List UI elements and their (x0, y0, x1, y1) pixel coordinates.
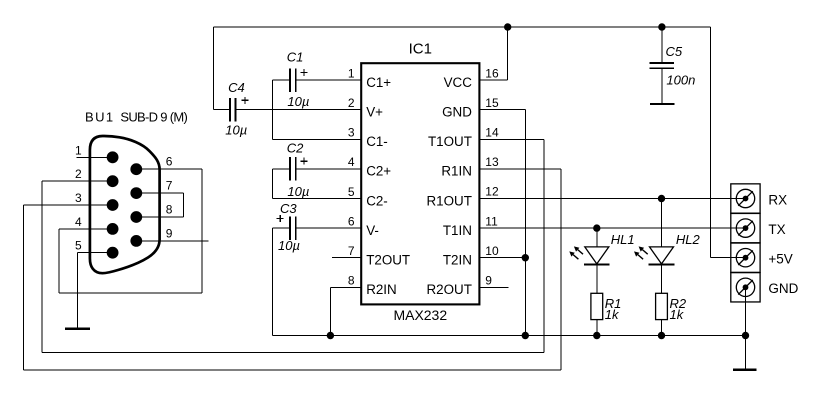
svg-text:MAX232: MAX232 (393, 307, 447, 323)
wire pin11 T1IN to TX (479, 227, 745, 229)
node HL1 junction (593, 224, 600, 231)
svg-text:1k: 1k (670, 307, 685, 322)
svg-text:HL1: HL1 (611, 232, 635, 247)
wire RX bottom run (BU1 pin3 to R1IN) (24, 369, 561, 371)
svg-text:12: 12 (485, 185, 499, 199)
svg-text:TX: TX (768, 222, 785, 237)
node pin10 tie junction (522, 254, 529, 261)
wire C2 to pin4 (297, 168, 362, 170)
svg-text:+5V: +5V (768, 252, 792, 267)
node pin8 ground junction (327, 332, 334, 339)
svg-text:6: 6 (348, 214, 355, 228)
svg-text:14: 14 (485, 126, 499, 140)
wire pin12 R1OUT to RX (479, 198, 745, 200)
connector BU1 SUB-D 9 outline (90, 136, 160, 273)
wire C3 to pin6 V- (297, 227, 362, 229)
node R2 ground junction (658, 332, 665, 339)
svg-text:C1+: C1+ (366, 75, 391, 90)
svg-text:RX: RX (768, 192, 787, 207)
ground C5 (650, 103, 675, 105)
ground BU1 (65, 328, 90, 330)
wire BU1 pin9 stub (136, 240, 208, 242)
svg-text:4: 4 (348, 155, 355, 169)
wire C3 left drop to ground rail (273, 227, 290, 229)
svg-text:8: 8 (348, 274, 355, 288)
svg-text:9: 9 (485, 274, 492, 288)
wire C1 left loop (273, 79, 290, 81)
wire pin14 T1OUT down (479, 138, 544, 140)
resistor R2 (656, 293, 668, 319)
wire GND terminal down (745, 287, 747, 368)
BU1 pins 1-9 contacts (107, 151, 119, 163)
svg-text:5: 5 (348, 185, 355, 199)
svg-text:100n: 100n (666, 73, 695, 88)
svg-text:2: 2 (348, 96, 355, 110)
wire pin7 T2OUT stub (332, 257, 361, 259)
svg-text:10µ: 10µ (278, 238, 300, 253)
svg-text:C3: C3 (280, 201, 297, 216)
wire +5V into terminal (710, 257, 745, 259)
svg-text:GND: GND (768, 281, 798, 296)
wire pin13 R1IN down (479, 168, 561, 170)
wire BU1 pin5 to ground (77, 252, 112, 254)
wire BU1 pin7-pin8 jumper (136, 192, 183, 194)
svg-text:V+: V+ (366, 105, 383, 120)
wire BU1 pin1 stub (76, 156, 112, 158)
svg-text:C2-: C2- (366, 193, 388, 208)
wire C1 to pin1 (297, 79, 362, 81)
wire TX bottom run (BU1 pin2 to T1OUT) (42, 351, 544, 353)
svg-text:2: 2 (75, 167, 82, 181)
svg-text:6: 6 (166, 155, 173, 169)
svg-text:C4: C4 (228, 80, 245, 95)
svg-text:VCC: VCC (444, 75, 473, 90)
wire BU1 pin4 loop to pin6 (59, 228, 113, 230)
capacitor C3 (289, 216, 291, 240)
wire BU1 pin3 to RX run (24, 204, 113, 206)
svg-text:1k: 1k (605, 307, 620, 322)
wire pin16 VCC to rail (479, 79, 507, 81)
svg-text:3: 3 (75, 191, 82, 205)
svg-text:R1OUT: R1OUT (427, 193, 472, 208)
svg-text:10µ: 10µ (225, 123, 247, 138)
svg-text:5: 5 (75, 239, 82, 253)
capacitor C5 (661, 27, 663, 62)
svg-text:7: 7 (166, 179, 173, 193)
terminal contacts (736, 189, 754, 207)
wire pin15 GND down (479, 109, 525, 111)
svg-text:13: 13 (485, 155, 499, 169)
node GND rail junction (522, 332, 529, 339)
svg-text:T2OUT: T2OUT (366, 253, 410, 268)
svg-text:1: 1 (75, 143, 82, 157)
svg-text:9: 9 (166, 226, 173, 240)
svg-text:HL2: HL2 (676, 232, 701, 247)
IC IC1 MAX232 body (361, 63, 479, 304)
svg-text:T1OUT: T1OUT (428, 134, 472, 149)
ground main (733, 369, 757, 371)
svg-text:R2OUT: R2OUT (427, 282, 472, 297)
svg-text:C5: C5 (666, 44, 683, 59)
svg-text:C1: C1 (287, 49, 304, 64)
node R1 ground junction (593, 332, 600, 339)
svg-text:T2IN: T2IN (443, 253, 472, 268)
node GND terminal rail junction (742, 332, 749, 339)
svg-text:10µ: 10µ (287, 94, 309, 109)
wire V+ left segment (213, 109, 229, 111)
svg-text:8: 8 (166, 203, 173, 217)
LED HL2 (661, 199, 663, 247)
connector terminal squares (731, 184, 760, 213)
resistor R1 (591, 293, 603, 319)
node C5 rail junction (658, 23, 665, 30)
svg-text:1: 1 (348, 66, 355, 80)
wire pin9 R2OUT stub (479, 286, 508, 288)
svg-text:C2+: C2+ (366, 164, 391, 179)
svg-text:4: 4 (75, 215, 82, 229)
capacitor C4 (229, 98, 231, 122)
svg-text:IC1: IC1 (409, 40, 432, 57)
wire +5V drop from rail (709, 27, 711, 258)
capacitor C2 (289, 157, 291, 181)
capacitor C1 (289, 68, 291, 92)
svg-text:15: 15 (485, 96, 499, 110)
svg-text:T1IN: T1IN (443, 223, 472, 238)
svg-text:R1IN: R1IN (441, 164, 472, 179)
svg-text:10: 10 (485, 244, 499, 258)
wire TX into terminal (731, 227, 746, 229)
svg-text:V-: V- (366, 223, 379, 238)
node HL2 junction (658, 195, 665, 202)
svg-text:C1-: C1- (366, 134, 388, 149)
wire RX into terminal (731, 198, 746, 200)
svg-text:C2: C2 (287, 141, 304, 156)
LED HL1 (596, 228, 598, 247)
svg-text:SUB-D 9 (M): SUB-D 9 (M) (120, 109, 187, 124)
wire C2 left loop (273, 168, 290, 170)
wire BU1 pin2 to TX run (42, 180, 113, 182)
wire pin8 R2IN to ground rail (330, 286, 361, 288)
wire C4 left riser (212, 27, 214, 110)
svg-text:16: 16 (485, 66, 499, 80)
wire ground rail (273, 335, 748, 337)
wire C4 to V+ pin2 (236, 109, 361, 111)
node VCC rail junction (504, 23, 511, 30)
wire top supply rail (213, 26, 710, 28)
svg-text:R2IN: R2IN (366, 282, 397, 297)
svg-text:11: 11 (485, 214, 498, 228)
svg-text:BU1: BU1 (85, 109, 115, 124)
svg-text:10µ: 10µ (287, 184, 309, 199)
svg-text:3: 3 (348, 126, 355, 140)
svg-text:7: 7 (348, 244, 355, 258)
svg-text:GND: GND (442, 105, 472, 120)
wire pin10 T2IN stub (479, 257, 525, 259)
